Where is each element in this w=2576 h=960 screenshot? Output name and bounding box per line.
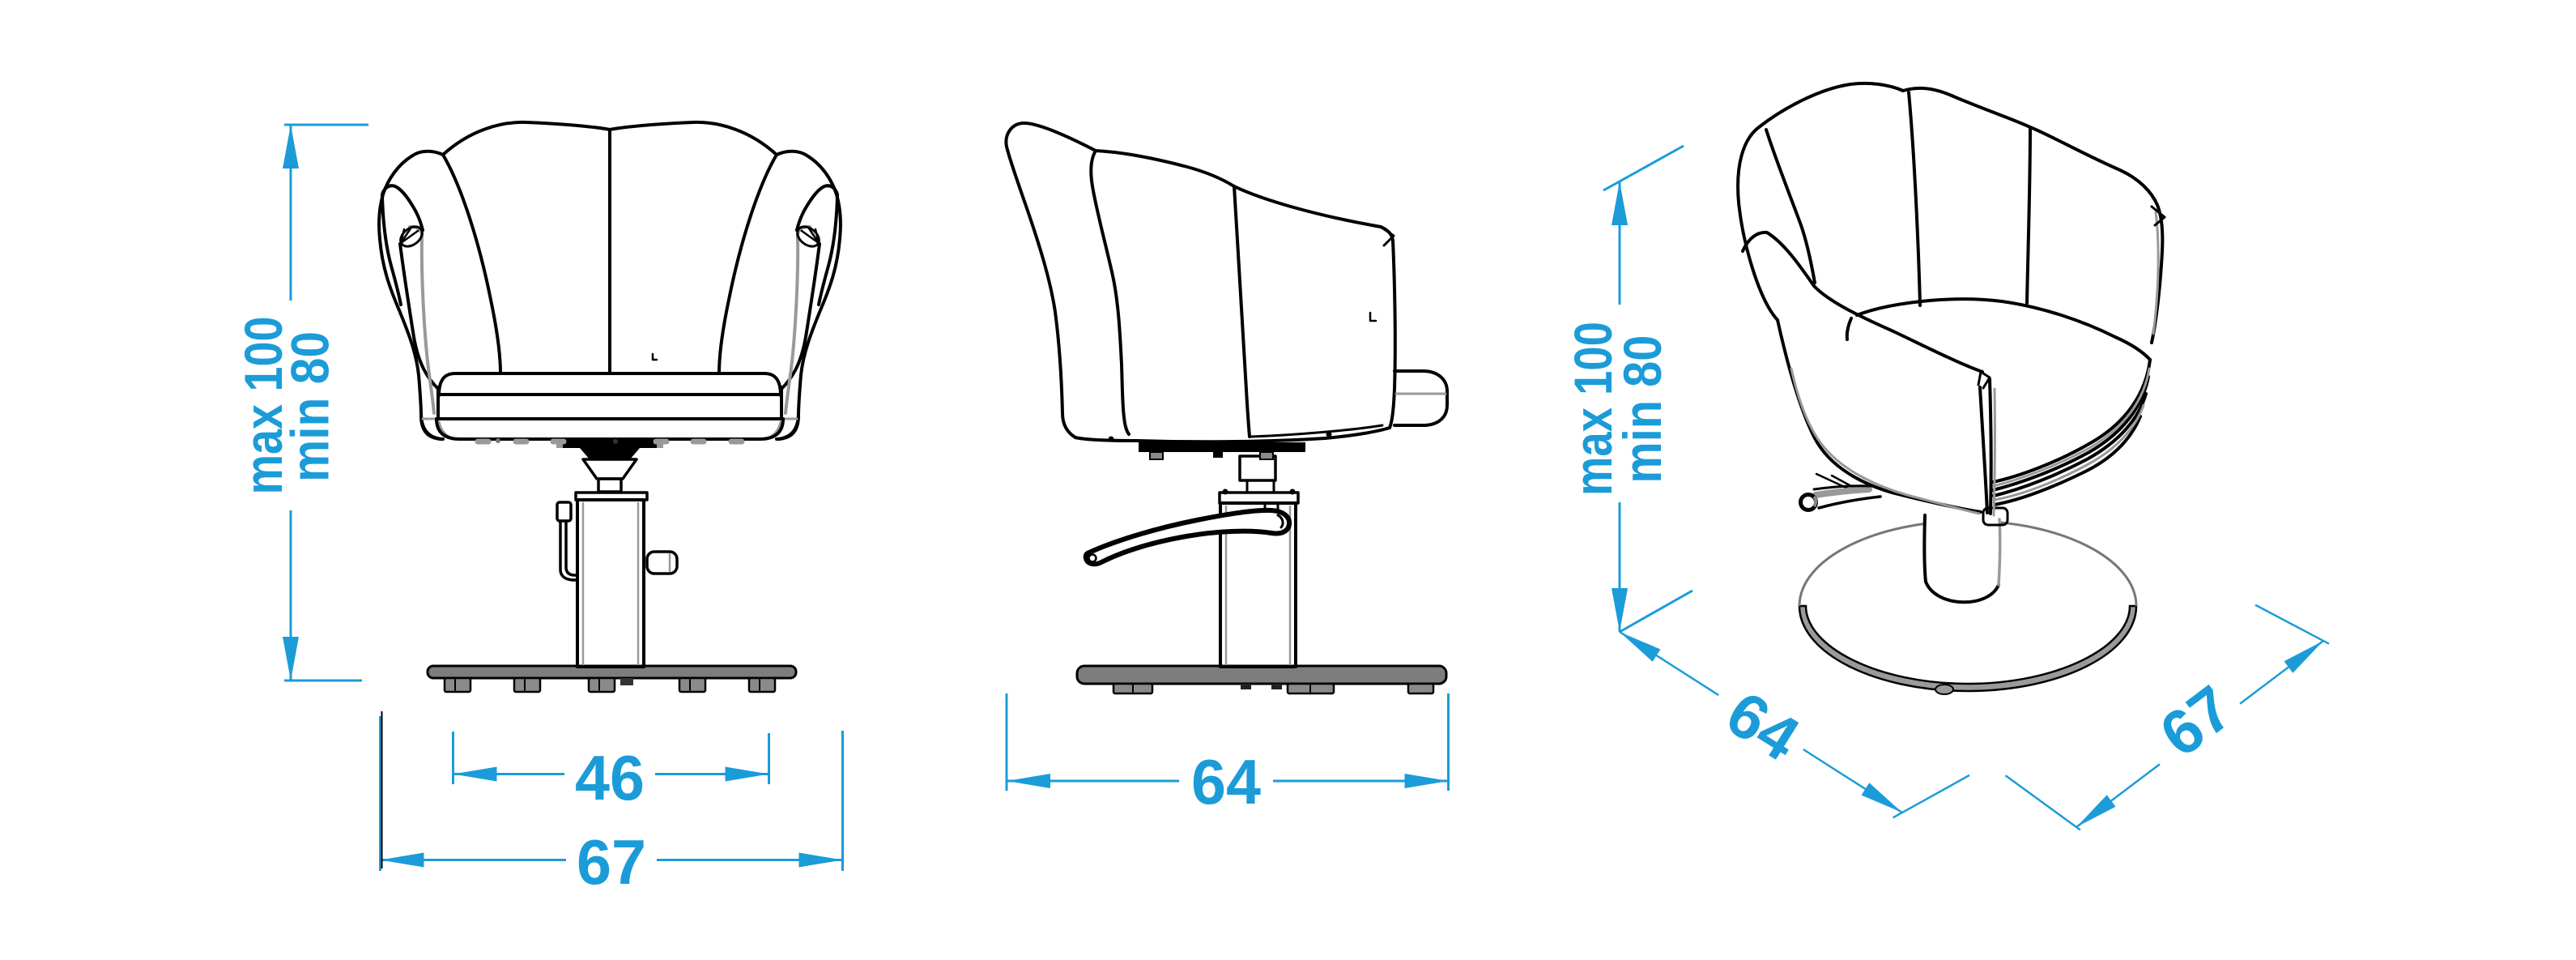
svg-text:46: 46 [575,742,645,813]
svg-text:min 80: min 80 [1612,335,1672,484]
svg-text:min 80: min 80 [280,331,340,482]
svg-text:64: 64 [1191,746,1261,817]
svg-text:67: 67 [577,826,646,898]
